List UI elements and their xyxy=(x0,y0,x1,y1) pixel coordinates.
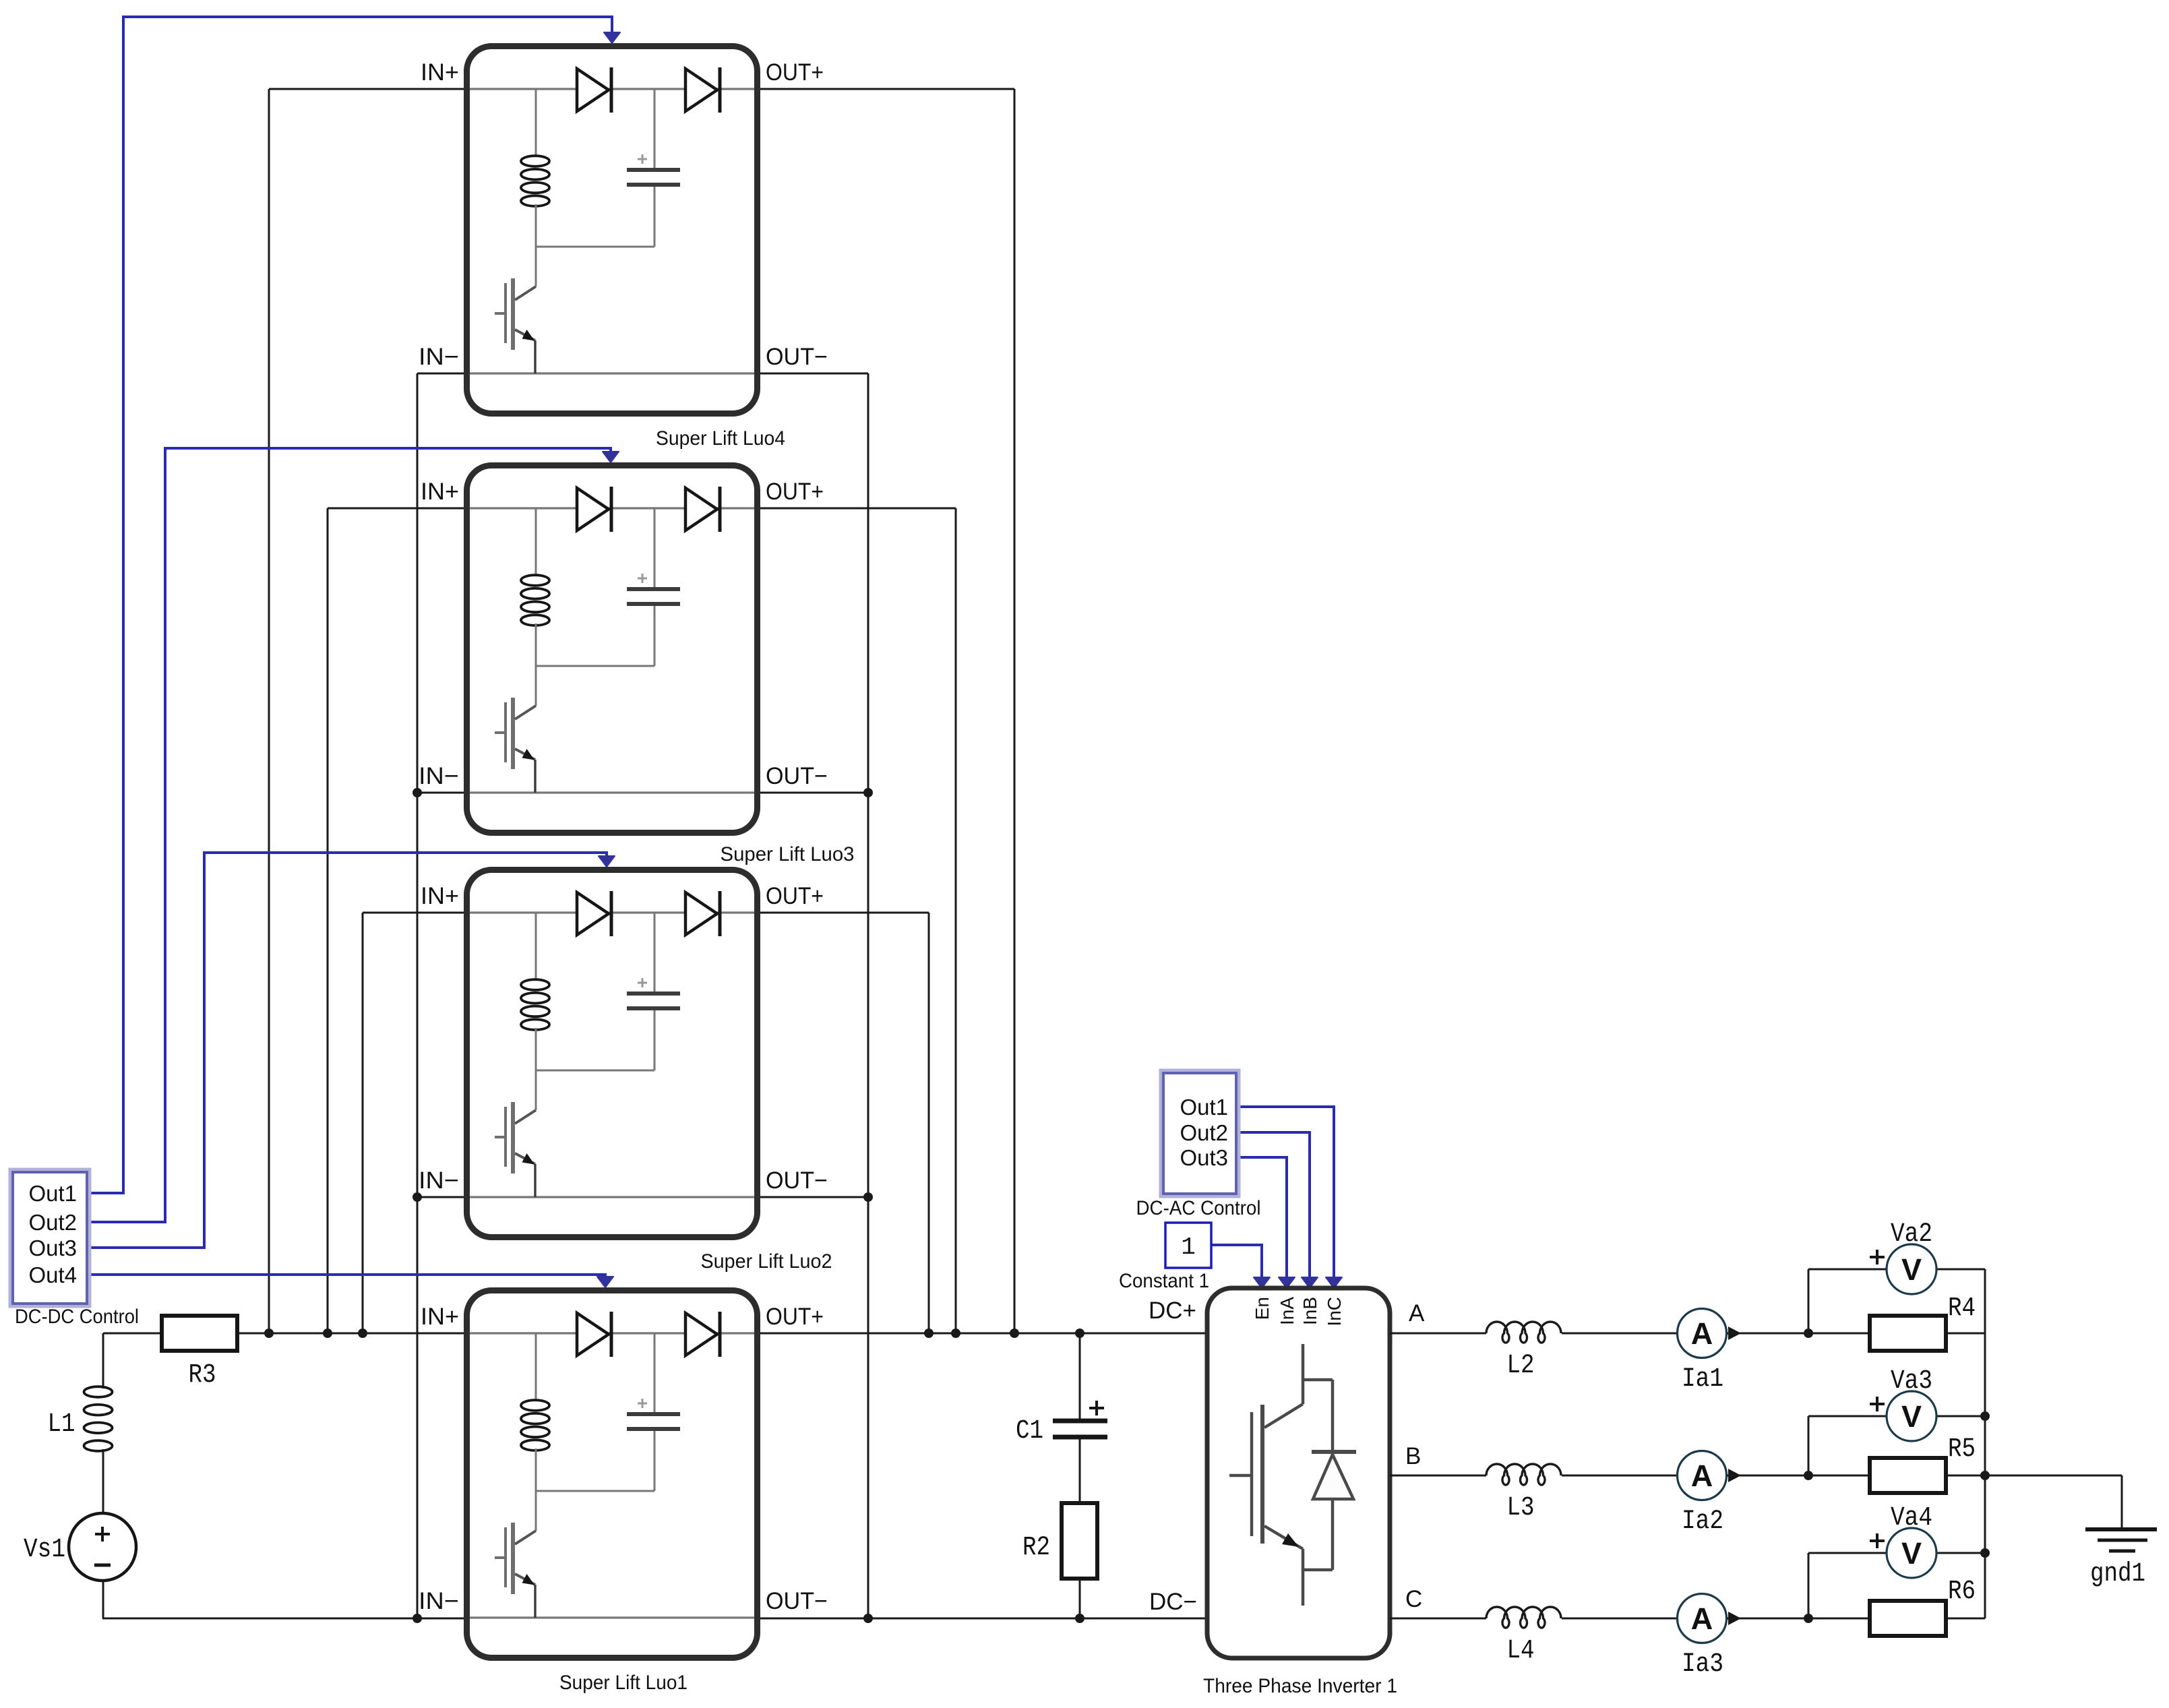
resistor R4 xyxy=(1870,1316,1946,1351)
wire: Luo2 IN- stub xyxy=(417,1196,464,1198)
wire: IN- bus vertical xyxy=(417,373,419,1618)
svg-text:InB: InB xyxy=(1300,1297,1320,1325)
arrow into inverter InC xyxy=(1326,1277,1342,1288)
svg-text:R4: R4 xyxy=(1948,1293,1976,1324)
wire: IN+ riser to Super Lift Luo4 xyxy=(268,89,270,1333)
svg-text:DC+: DC+ xyxy=(1149,1298,1196,1324)
svg-text:A: A xyxy=(1409,1300,1425,1326)
svg-text:A: A xyxy=(1691,1602,1713,1636)
voltmeter Va2 xyxy=(1887,1244,1936,1294)
Luo3 node wire xyxy=(536,665,654,667)
junction dots xyxy=(264,1329,274,1338)
wire: Va4 branch xyxy=(1808,1553,1810,1618)
svg-text:V: V xyxy=(1901,1399,1922,1434)
svg-text:Out1: Out1 xyxy=(28,1181,77,1206)
svg-text:V: V xyxy=(1901,1252,1922,1287)
Luo3 diode D1 xyxy=(577,488,609,530)
svg-text:B: B xyxy=(1405,1443,1421,1469)
arrow into inverter InB xyxy=(1302,1277,1318,1288)
wire: DC-AC Out2 to inverter InB (blue) xyxy=(1236,1132,1310,1278)
svg-text:IN−: IN− xyxy=(419,344,459,370)
wire: Luo2 OUT+ to DC+ bus xyxy=(758,912,929,914)
svg-text:Out3: Out3 xyxy=(1180,1145,1228,1170)
svg-text:L4: L4 xyxy=(1507,1636,1535,1666)
converter block Super Lift Luo4 xyxy=(419,47,828,414)
wire: Luo4 IN- stub xyxy=(417,373,464,375)
Luo4 node wire xyxy=(536,246,654,248)
wire: Luo4 OUT- stub xyxy=(758,373,868,375)
ammeter Ia3 xyxy=(1678,1594,1727,1643)
svg-text:R2: R2 xyxy=(1022,1533,1050,1563)
svg-text:Va2: Va2 xyxy=(1891,1219,1932,1250)
svg-text:R5: R5 xyxy=(1948,1434,1976,1465)
wire: Luo3 OUT- stub xyxy=(758,792,868,794)
arrow into Super Lift Luo2 xyxy=(599,856,615,867)
inductor L2 xyxy=(1486,1322,1561,1343)
wire: DC-DC Out1 to Luo4 gate (blue) xyxy=(88,17,612,1193)
Luo1 internal IN+/OUT+ rail xyxy=(470,1332,754,1334)
Luo4 internal IN+/OUT+ rail xyxy=(470,88,754,90)
Luo1 diode D2 xyxy=(685,1313,717,1355)
inductor L1 xyxy=(84,1386,113,1397)
Luo1 internal IN-/OUT- rail xyxy=(470,1616,754,1618)
voltmeter Va3 xyxy=(1887,1391,1936,1441)
svg-text:OUT−: OUT− xyxy=(766,1167,828,1194)
Luo4 IGBT transistor xyxy=(511,278,515,350)
svg-text:OUT+: OUT+ xyxy=(766,1304,824,1330)
svg-text:Super Lift Luo3: Super Lift Luo3 xyxy=(721,843,855,865)
wire: DC-DC Out4 to Luo1 gate (blue) xyxy=(88,1275,605,1278)
svg-text:A: A xyxy=(1691,1459,1713,1493)
Luo2 diode D2 xyxy=(685,892,717,935)
inverter block Three Phase Inverter 1 xyxy=(1207,1288,1390,1658)
Luo4 internal IN-/OUT- rail xyxy=(470,372,754,374)
svg-text:OUT−: OUT− xyxy=(766,763,828,789)
svg-text:IN−: IN− xyxy=(419,1588,459,1614)
Luo1 diode D1 xyxy=(577,1313,609,1355)
svg-text:V: V xyxy=(1901,1536,1922,1570)
svg-text:IN+: IN+ xyxy=(421,1304,459,1330)
wire: row B to ground xyxy=(1985,1475,2122,1477)
Luo4 capacitor xyxy=(654,89,656,169)
converter block Super Lift Luo1 xyxy=(419,1291,828,1658)
inductor L3 xyxy=(1486,1464,1561,1485)
svg-text:InA: InA xyxy=(1277,1297,1297,1325)
wire: phase row L3 xyxy=(1390,1475,1486,1477)
arrow into inverter En xyxy=(1254,1277,1270,1288)
svg-text:C: C xyxy=(1405,1586,1422,1612)
svg-text:Ia1: Ia1 xyxy=(1682,1364,1723,1395)
Luo3 inductor xyxy=(535,508,537,576)
svg-text:IN−: IN− xyxy=(419,1167,459,1194)
svg-text:DC−: DC− xyxy=(1149,1589,1197,1615)
Luo2 IGBT transistor xyxy=(511,1102,515,1173)
inductor L4 xyxy=(1486,1607,1561,1628)
svg-text:Out3: Out3 xyxy=(28,1236,77,1260)
svg-text:1: 1 xyxy=(1181,1233,1196,1261)
svg-text:Out4: Out4 xyxy=(28,1262,77,1287)
wire: row A to R4 xyxy=(1808,1333,1870,1335)
Luo4 diode D2 xyxy=(685,69,717,111)
svg-text:Super Lift Luo2: Super Lift Luo2 xyxy=(701,1250,832,1273)
Luo3 internal IN-/OUT- rail xyxy=(470,791,754,793)
wire: row B to R5 xyxy=(1808,1475,1870,1477)
svg-text:IN+: IN+ xyxy=(421,883,459,909)
svg-text:OUT+: OUT+ xyxy=(766,883,824,909)
wire: OUT- bus vertical xyxy=(867,373,869,1618)
svg-text:gnd1: gnd1 xyxy=(2090,1559,2145,1589)
svg-text:A: A xyxy=(1691,1316,1713,1351)
svg-text:OUT−: OUT− xyxy=(766,344,828,370)
svg-text:Va3: Va3 xyxy=(1891,1366,1932,1397)
svg-text:Super Lift Luo4: Super Lift Luo4 xyxy=(656,427,785,450)
wire: R3 row from source branch to Luo1 IN+ xyxy=(103,1333,464,1335)
wire: IN+ riser to Super Lift Luo3 xyxy=(327,508,329,1333)
Luo3 IGBT transistor xyxy=(511,698,515,769)
svg-text:L2: L2 xyxy=(1507,1351,1535,1381)
svg-text:L1: L1 xyxy=(48,1409,75,1440)
Luo2 capacitor xyxy=(654,913,656,992)
Luo3 capacitor xyxy=(654,508,656,588)
wire: bottom DC- rail from Vs1 to Three Phase Inverter DC- xyxy=(102,1618,1207,1620)
wire: DC+ rail from Luo1 OUT+ to inverter DC+ xyxy=(758,1333,1207,1335)
svg-text:InC: InC xyxy=(1324,1297,1345,1326)
wire: Constant 1 to inverter En (blue) xyxy=(1211,1245,1262,1278)
wire: DC-AC Out3 to inverter InA (blue) xyxy=(1236,1157,1287,1278)
wire: row C to R6 xyxy=(1808,1618,1870,1620)
inverter IGBT symbol xyxy=(1229,1344,1333,1606)
svg-text:Three Phase Inverter 1: Three Phase Inverter 1 xyxy=(1203,1675,1397,1697)
svg-text:Ia3: Ia3 xyxy=(1682,1649,1723,1680)
wire: phase row L4 xyxy=(1390,1618,1486,1620)
Luo2 inductor xyxy=(535,913,537,980)
svg-text:Va4: Va4 xyxy=(1891,1503,1932,1533)
Luo2 internal IN-/OUT- rail xyxy=(470,1196,754,1198)
wire: Va3 branch xyxy=(1808,1416,1810,1475)
arrow into Super Lift Luo4 xyxy=(604,32,620,43)
Luo1 inductor xyxy=(535,1333,537,1401)
svg-text:Vs1: Vs1 xyxy=(24,1535,65,1565)
resistor R3 xyxy=(162,1316,237,1351)
svg-text:DC-AC Control: DC-AC Control xyxy=(1136,1197,1261,1219)
svg-text:R6: R6 xyxy=(1948,1577,1976,1607)
resistor R2 xyxy=(1062,1503,1097,1579)
svg-text:R3: R3 xyxy=(189,1360,216,1391)
wire: Luo1 OUT- rail to bus xyxy=(758,1618,868,1620)
svg-text:Out2: Out2 xyxy=(1180,1120,1228,1145)
svg-text:OUT+: OUT+ xyxy=(766,479,824,505)
resistor R5 xyxy=(1870,1458,1946,1493)
capacitor C1 xyxy=(1079,1333,1081,1419)
wire: Luo2 OUT- stub xyxy=(758,1196,868,1198)
wire: load bus vertical xyxy=(1984,1269,1986,1618)
ammeter Ia2 xyxy=(1678,1451,1727,1500)
wire: DC-DC Out3 to Luo2 gate (blue) xyxy=(88,853,607,1248)
wire: DC-DC Out2 to Luo3 gate (blue) xyxy=(88,448,611,1222)
wire: DC-AC Out1 to inverter InC (blue) xyxy=(1236,1107,1334,1278)
svg-text:Super Lift Luo1: Super Lift Luo1 xyxy=(559,1672,688,1694)
Luo3 internal IN+/OUT+ rail xyxy=(470,507,754,509)
svg-text:OUT−: OUT− xyxy=(766,1588,828,1614)
wire: IN+ riser to Super Lift Luo2 xyxy=(362,913,364,1333)
svg-text:IN+: IN+ xyxy=(421,479,459,505)
arrow into inverter InA xyxy=(1279,1277,1295,1288)
ammeter Ia1 xyxy=(1678,1309,1727,1358)
wire: Luo3 OUT+ to DC+ bus xyxy=(758,508,956,510)
Luo3 diode D2 xyxy=(685,488,717,530)
svg-text:DC-DC Control: DC-DC Control xyxy=(15,1306,139,1328)
svg-text:Out1: Out1 xyxy=(1180,1095,1228,1120)
svg-text:OUT+: OUT+ xyxy=(766,59,824,86)
voltage source Vs1 xyxy=(69,1513,136,1581)
svg-text:IN−: IN− xyxy=(419,763,459,789)
svg-text:Constant 1: Constant 1 xyxy=(1119,1270,1209,1292)
wire: Luo3 IN- stub xyxy=(417,792,464,794)
Luo1 node wire xyxy=(536,1490,654,1492)
wire: phase row L2 xyxy=(1390,1333,1486,1335)
Luo4 diode D1 xyxy=(577,69,609,111)
converter block Super Lift Luo3 xyxy=(419,466,828,833)
svg-text:C1: C1 xyxy=(1016,1416,1043,1446)
Luo1 capacitor xyxy=(654,1333,656,1413)
svg-text:En: En xyxy=(1252,1297,1273,1320)
voltmeter Va4 xyxy=(1887,1528,1936,1578)
wire: Luo4 OUT+ to DC+ bus xyxy=(758,88,1014,90)
Luo4 inductor xyxy=(535,89,537,156)
controller block DC-DC Control xyxy=(11,1170,89,1306)
wire: Va2 branch xyxy=(1808,1269,1810,1333)
controller block DC-AC Control xyxy=(1161,1071,1238,1196)
Luo2 internal IN+/OUT+ rail xyxy=(470,911,754,913)
arrow into Super Lift Luo3 xyxy=(603,452,619,462)
arrow into Super Lift Luo1 xyxy=(597,1277,613,1287)
wire: source branch vertical from R3 row down to Vs1 xyxy=(102,1333,104,1389)
svg-text:L3: L3 xyxy=(1507,1493,1535,1523)
inverter freewheel diode xyxy=(1312,1450,1356,1454)
ground gnd1 xyxy=(2085,1527,2157,1531)
resistor R6 xyxy=(1870,1601,1946,1636)
svg-text:Ia2: Ia2 xyxy=(1682,1506,1723,1537)
Luo2 node wire xyxy=(536,1070,654,1072)
constant block Constant 1 xyxy=(1165,1223,1211,1268)
Luo1 IGBT transistor xyxy=(511,1523,515,1594)
svg-text:IN+: IN+ xyxy=(421,59,459,86)
converter block Super Lift Luo2 xyxy=(419,870,828,1238)
svg-text:Out2: Out2 xyxy=(28,1210,77,1235)
Luo2 diode D1 xyxy=(577,892,609,935)
